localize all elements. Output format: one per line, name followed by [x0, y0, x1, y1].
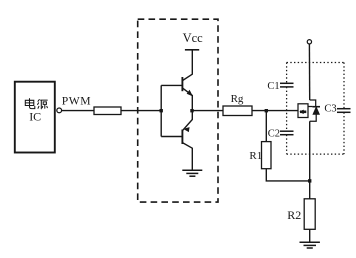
wire Q2 base — [161, 136, 182, 138]
wire R1 bottom to source node — [266, 169, 309, 181]
junction gate node — [265, 109, 268, 112]
svg-text:Rg: Rg — [231, 93, 244, 105]
wire driver output to Rg — [192, 110, 223, 112]
wire base bus (vertical) — [160, 85, 162, 136]
power rail Vcc terminal — [185, 49, 199, 51]
diode body of Q3 — [308, 100, 320, 121]
dotted box MOSFET parasitics — [287, 63, 344, 155]
IC box U1 (power supply IC) — [15, 82, 55, 153]
transistor Q2 (PNP lower) — [182, 111, 192, 170]
transistor Q3 (MOSFET) — [298, 104, 308, 118]
svg-text:R2: R2 — [287, 208, 301, 222]
svg-text:C1: C1 — [267, 81, 279, 92]
svg-text:R1: R1 — [249, 150, 262, 162]
dashed box driver stage — [138, 19, 218, 202]
node PWM terminal — [57, 108, 62, 113]
junction driver output node — [190, 109, 193, 112]
wire gate node down to R1 — [265, 111, 267, 142]
svg-text:Vcc: Vcc — [183, 31, 204, 45]
capacitor C1 — [280, 83, 294, 87]
capacitor C2 — [280, 131, 294, 135]
wire source — [309, 121, 311, 181]
wire Rg to gate — [252, 110, 298, 112]
svg-text:IC: IC — [29, 110, 41, 124]
wire drain — [308, 44, 310, 100]
wire PWM node to series resistor — [62, 110, 94, 112]
wire Q1 base — [161, 84, 182, 86]
svg-text:C3: C3 — [324, 103, 336, 114]
wire resistor to driver input — [121, 110, 161, 112]
ground (driver stage) — [182, 170, 202, 176]
resistor R2 — [304, 199, 315, 230]
capacitor C3 — [337, 109, 351, 113]
node drain terminal — [307, 40, 311, 44]
wire source node to R2 — [309, 181, 311, 199]
svg-text:PWM: PWM — [62, 95, 91, 108]
wire R2 to ground — [309, 229, 311, 242]
label 电源 — [25, 99, 47, 109]
resistor R (series, unlabeled) — [94, 107, 121, 115]
svg-text:C2: C2 — [268, 129, 280, 140]
junction source/R2 node — [308, 179, 311, 182]
resistor Rg — [223, 106, 252, 116]
resistor R1 — [262, 142, 272, 169]
transistor Q1 (NPN upper) — [182, 50, 192, 111]
ground (output) — [300, 242, 320, 248]
junction driver input node — [160, 109, 163, 112]
